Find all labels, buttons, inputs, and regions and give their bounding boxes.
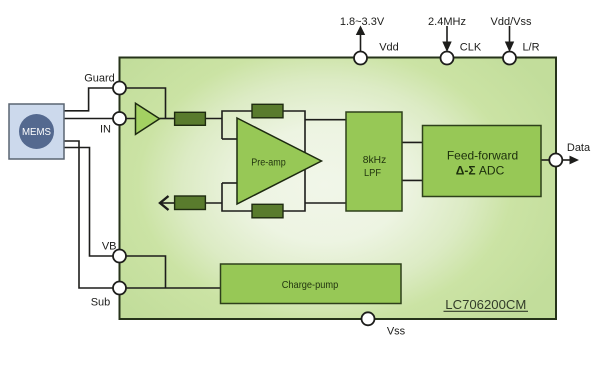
svg-text:LPF: LPF bbox=[364, 167, 381, 179]
svg-text:MEMS: MEMS bbox=[22, 127, 51, 138]
svg-text:Data: Data bbox=[567, 142, 591, 154]
svg-text:Vss: Vss bbox=[387, 326, 406, 338]
svg-text:CLK: CLK bbox=[460, 42, 482, 54]
svg-text:IN: IN bbox=[100, 124, 111, 136]
svg-text:Guard: Guard bbox=[84, 73, 115, 85]
svg-text:Feed-forward: Feed-forward bbox=[447, 149, 518, 163]
svg-text:8kHz: 8kHz bbox=[363, 154, 387, 166]
svg-text:2.4MHz: 2.4MHz bbox=[428, 16, 466, 28]
svg-text:VB: VB bbox=[102, 241, 117, 253]
svg-text:Vdd/Vss: Vdd/Vss bbox=[491, 16, 532, 28]
svg-text:1.8~3.3V: 1.8~3.3V bbox=[340, 16, 385, 28]
svg-text:L/R: L/R bbox=[522, 42, 539, 54]
svg-text:Charge-pump: Charge-pump bbox=[282, 279, 339, 291]
svg-text:LC706200CM: LC706200CM bbox=[445, 297, 526, 312]
svg-text:Sub: Sub bbox=[91, 297, 111, 309]
svg-text:Δ-Σ ADC: Δ-Σ ADC bbox=[456, 164, 505, 178]
svg-text:Vdd: Vdd bbox=[379, 42, 399, 54]
svg-text:Pre-amp: Pre-amp bbox=[251, 158, 286, 169]
